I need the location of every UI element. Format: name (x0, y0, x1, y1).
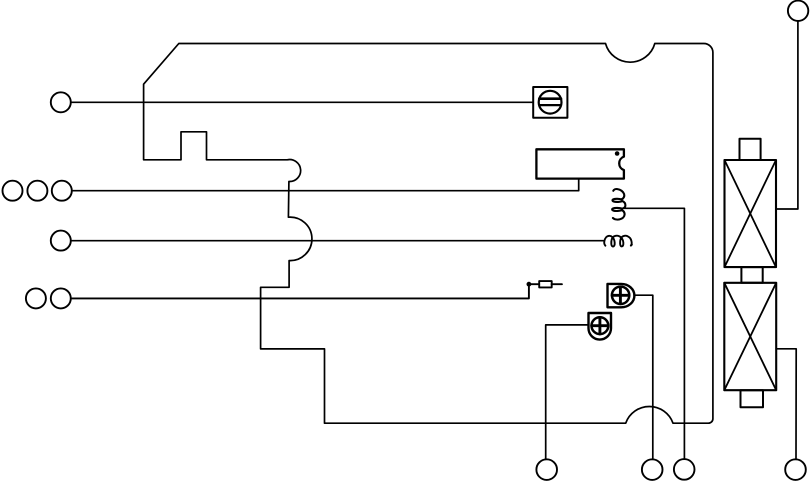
terminal P4 (52, 181, 72, 201)
transformer T1 winding (crossed box) (725, 160, 777, 267)
terminal P9 (bottom) (536, 459, 557, 480)
wire T2 to bottom-right terminal (776, 349, 796, 460)
wire C2 to bottom terminal (546, 325, 589, 459)
wire T1 to top-right terminal (776, 21, 798, 209)
transformer T1 top lug (740, 139, 761, 160)
terminal P11 (bottom) (674, 459, 695, 480)
transformer T2 bottom lug (741, 390, 764, 407)
module outline (shield-can boundary with notch, bump and crossing hops) (144, 44, 713, 424)
transformer T2 winding (crossed box) (724, 283, 776, 390)
wire C1 to bottom terminal (634, 295, 653, 459)
trimmer capacitor C1 (D-shaped body) (608, 284, 635, 307)
wire P5 to coil L2 (71, 240, 604, 242)
wire P7 to junction and resistor R1 (71, 284, 539, 298)
screw adjuster (slotted screw in square) (533, 87, 567, 118)
coil L2 (horizontal inductor, open ended) (604, 236, 632, 247)
junction dot (527, 282, 532, 287)
C1 rotor (cross in circle) (612, 287, 629, 304)
wire P4 to component box lead (72, 179, 579, 191)
coil L1 (vertical inductor) (612, 189, 625, 220)
terminal P8 (top right) (788, 1, 808, 21)
terminal P7 (51, 288, 71, 308)
terminal P5 (51, 231, 71, 251)
trimmer capacitor C2 (D-shaped body, flat top) (589, 313, 612, 340)
transformer coupling lug (between T1 and T2) (741, 267, 762, 283)
wire L1 to bottom terminal (624, 208, 684, 459)
C2 rotor (cross in circle) (592, 317, 609, 334)
resistor R1 (539, 281, 552, 287)
terminal P3 (27, 181, 47, 201)
terminal P2 (3, 181, 23, 201)
pin-1 dot of U1 (615, 151, 620, 156)
terminal P1 (top left) (51, 92, 71, 112)
terminal P12 (bottom right) (785, 459, 806, 480)
terminal P10 (bottom) (642, 459, 663, 480)
wire R1 right lead (552, 283, 562, 285)
wire P1 to screw adjuster (71, 101, 533, 103)
terminal P6 (26, 288, 46, 308)
component box U1 (with pin-1 dot and edge notch) (536, 149, 624, 178)
